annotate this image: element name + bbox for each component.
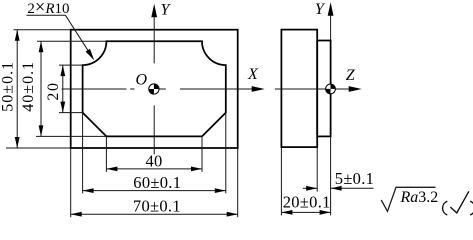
- svg-text:40: 40: [145, 151, 162, 170]
- svg-text:Z: Z: [346, 67, 356, 84]
- svg-text:X: X: [247, 66, 259, 83]
- svg-text:Ra3.2: Ra3.2: [400, 189, 439, 206]
- svg-text:20±0.1: 20±0.1: [283, 193, 331, 212]
- svg-text:O: O: [136, 72, 148, 89]
- svg-text:40±0.1: 40±0.1: [20, 61, 37, 112]
- svg-text:70±0.1: 70±0.1: [133, 197, 181, 216]
- svg-text:50±0.1: 50±0.1: [0, 61, 17, 112]
- svg-text:20: 20: [45, 81, 62, 100]
- svg-text:5±0.1: 5±0.1: [335, 169, 374, 188]
- svg-text:60±0.1: 60±0.1: [133, 173, 181, 192]
